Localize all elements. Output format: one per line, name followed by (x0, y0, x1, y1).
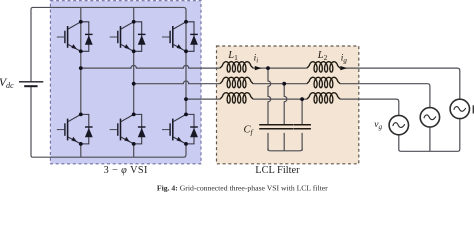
svg-text:Vdc: Vdc (0, 77, 14, 90)
wire: phase a line with hops (81, 65, 460, 99)
VSI dashed box (blue) (50, 1, 201, 164)
node cap tap c (300, 97, 304, 101)
AC source vg phase c (389, 115, 408, 134)
current arrow i_i (255, 66, 262, 70)
svg-text:LCL Filter: LCL Filter (255, 165, 300, 176)
wire: leg 2 vertical (133, 7, 135, 114)
wire: capacitor branch b with hop (284, 84, 287, 151)
node cap tap b (282, 82, 286, 86)
transistor Q3 top leg3 (162, 20, 198, 53)
wire: leg 3 vertical (185, 22, 187, 115)
AC source phase a (450, 99, 469, 118)
wire: phase c line (186, 99, 399, 115)
wire: capacitor branch c (301, 99, 303, 151)
wire: leg 1 vertical (80, 7, 82, 114)
svg-text:Fig. 4: Grid-connected three-p: Fig. 4: Grid-connected three-phase VSI w… (157, 183, 328, 192)
transistor Q6 bottom leg3 (162, 113, 198, 146)
wire: phase b line with hop (134, 81, 430, 108)
transistor Q2 top leg2 (110, 20, 146, 53)
AC source phase b (420, 108, 439, 127)
transistor Q4 bottom leg1 (57, 113, 93, 146)
wire: DC+ top rail (31, 7, 186, 81)
battery Vdc bottom plate (24, 85, 37, 87)
svg-text:vg: vg (374, 120, 382, 131)
capacitor Cf b (275, 125, 293, 129)
inductor L1 phase a (220, 62, 253, 72)
wire: DC- bottom rail (31, 87, 186, 158)
wire: grid source drops and neutral bus (399, 119, 460, 152)
clipped mark at right edge (473, 105, 474, 113)
inductor L2 phase a (307, 62, 340, 72)
node phase c tap (184, 97, 188, 101)
inductor L2 phase c (307, 93, 340, 103)
node phase a tap (79, 66, 83, 70)
transistor Q5 bottom leg2 (110, 113, 146, 146)
wire: capacitor star bus (268, 148, 302, 151)
node phase b tap (132, 82, 136, 86)
inductor L1 phase b (220, 77, 253, 87)
capacitor Cf a (259, 125, 277, 129)
capacitor Cf c (293, 125, 311, 129)
LCL filter dashed box (orange) (217, 46, 359, 164)
current arrow i_g (340, 66, 347, 70)
inductor L2 phase b (307, 77, 340, 87)
node cap tap a (266, 66, 270, 70)
inductor L1 phase c (220, 93, 253, 103)
battery Vdc top plate (19, 81, 43, 83)
wire: capacitor branch a with hops (268, 68, 271, 151)
svg-text:3 − φ VSI: 3 − φ VSI (104, 165, 148, 176)
transistor Q1 top leg1 (57, 20, 93, 53)
